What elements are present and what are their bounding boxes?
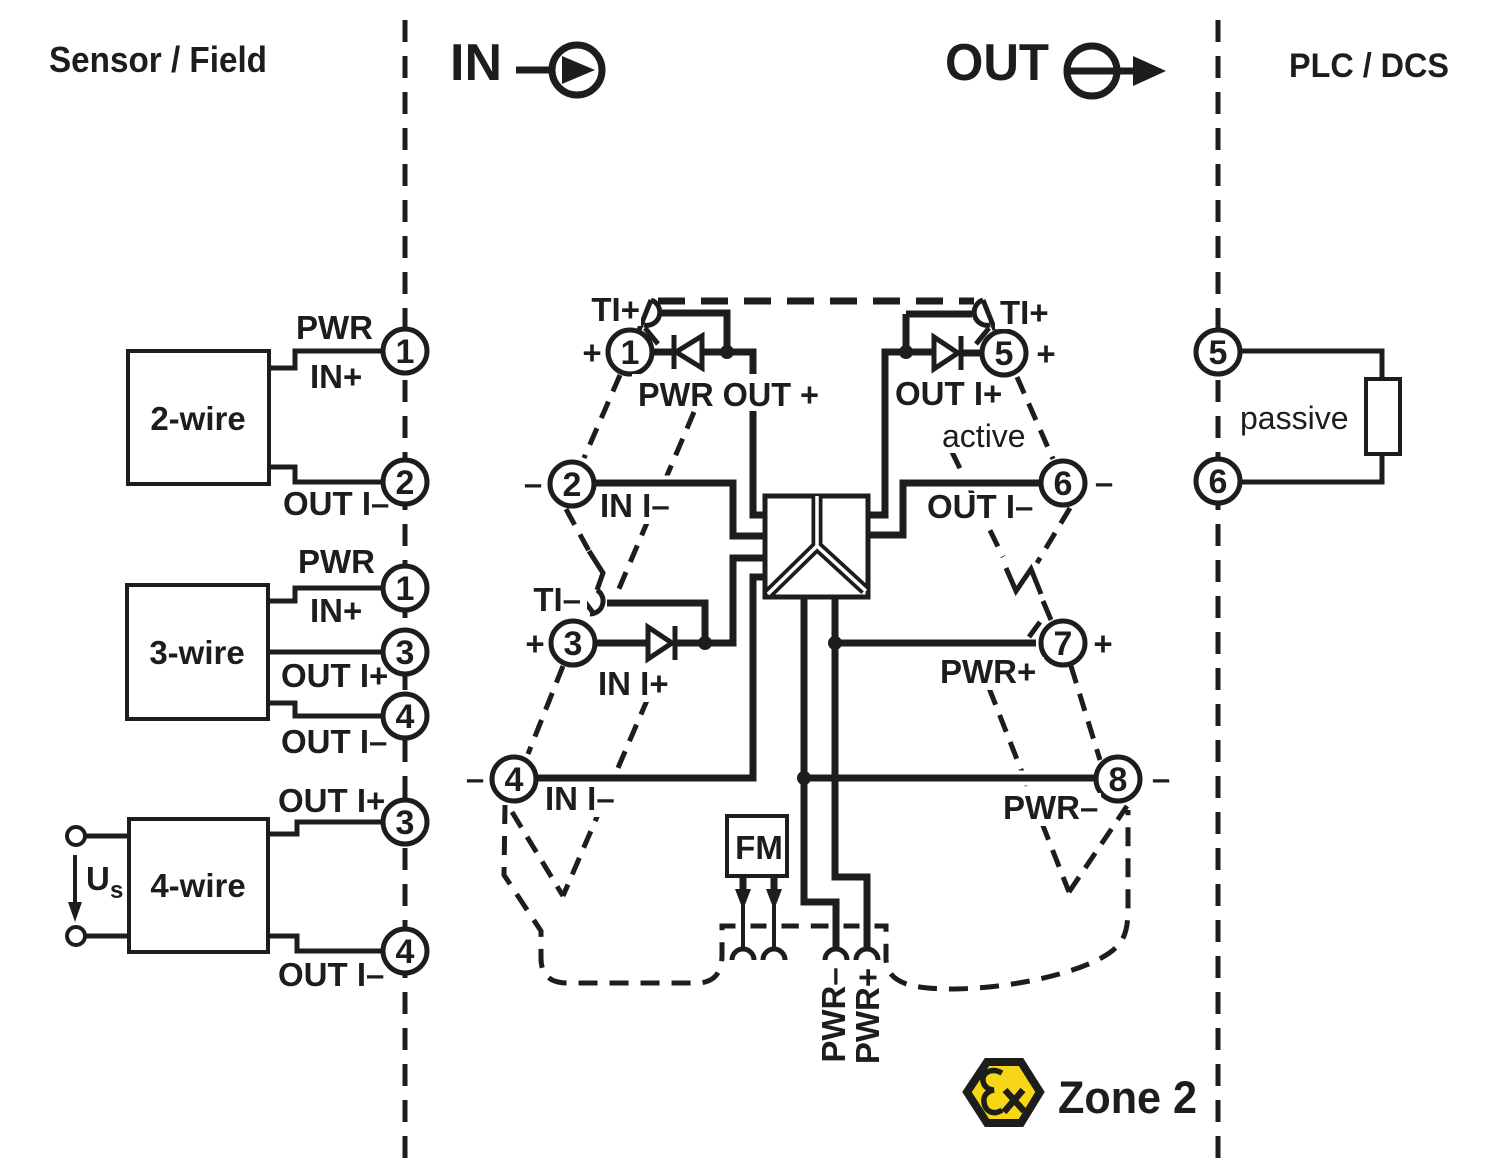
wire PWR- isolator block to bottom plug [804,597,836,947]
svg-text:PWR OUT +: PWR OUT + [638,376,819,413]
dashed link D2: PWR OUT+ label to terminal 3 test socket [618,412,694,591]
terminal 3 (left column, 3-wire) [383,630,427,674]
svg-text:5: 5 [995,335,1014,373]
dashed link D4: terminal 3 to terminal 4 [528,666,563,754]
terminal 5 (device output) [982,331,1026,375]
label IN I- at terminal 2 [595,487,680,524]
svg-text:PLC / DCS: PLC / DCS [1289,47,1449,85]
test socket at terminal 7 [1029,601,1051,637]
wire supply top to 4-wire box [85,834,129,839]
svg-text:OUT I–: OUT I– [283,485,389,522]
terminal 3 (device input) [551,621,595,665]
junction dot at terminal 3 diode [698,636,712,650]
zone boundary dashed line left (Sensor/Field | IN) [403,20,408,1165]
svg-text:2-wire: 2-wire [150,400,245,437]
wire white casings [537,313,1094,947]
wire 2-wire PWR to terminal 1 [269,351,383,368]
svg-text:OUT I+: OUT I+ [278,782,385,819]
label TI+ at terminal 5 [995,294,1055,331]
svg-text:OUT I+: OUT I+ [895,375,1002,412]
svg-text:Sensor / Field: Sensor / Field [49,39,267,80]
terminal 1 (left column, 3-wire) [383,566,427,610]
svg-text:4: 4 [396,933,415,971]
label OUT I- at terminal 6 [921,488,1039,526]
PLC terminal 5 [1196,330,1240,374]
svg-text:s: s [110,877,123,904]
svg-text:–: – [524,465,542,502]
FM box [727,816,787,876]
wire 4-wire OUT I+ to terminal 3 [268,822,383,834]
wire TI+ line to junction (output side) [906,314,972,352]
svg-text:–: – [1152,760,1170,797]
FM wire 2 with arrow [766,876,782,947]
supply terminal top (open circle) [67,827,85,845]
diode D3 at terminal 5 (cathode toward terminal) [906,336,982,370]
FM wire 1 with arrow [735,876,751,947]
label active [936,418,1032,454]
isolator block U1 [765,496,868,597]
svg-text:passive: passive [1240,400,1349,436]
dashed link D5: IN I+ label to V point below terminal 4 [563,698,648,896]
label PWR+ at terminal 7 [934,653,1044,690]
svg-text:TI–: TI– [533,581,581,618]
terminal 3 (left column, 4-wire) [383,800,427,844]
dashed link D9: terminal 7 to terminal 8 [1071,666,1100,760]
svg-text:PWR: PWR [298,543,375,580]
svg-text:Zone 2: Zone 2 [1058,1072,1197,1123]
svg-text:PWR–: PWR– [1003,789,1098,826]
svg-text:OUT I–: OUT I– [927,488,1033,525]
svg-text:IN I+: IN I+ [598,665,669,702]
terminal 4 (left column, 4-wire) [383,929,427,973]
svg-text:2: 2 [396,464,415,502]
wire OUT I- isolator block to terminal 6 [868,483,1040,535]
svg-text:PWR: PWR [296,309,373,346]
svg-text:+: + [582,334,601,371]
wire 3-wire OUT I- to terminal 4 [268,703,383,716]
svg-text:+: + [525,625,544,662]
svg-text:PWR+: PWR+ [849,968,886,1064]
diode D2 at terminal 3 (cathode toward block) [596,626,675,660]
sensor box 4-wire [129,819,268,952]
label IN I+ at terminal 3 [592,665,677,702]
svg-text:2: 2 [563,466,582,504]
Us supply arrow [68,855,82,922]
label PWR- at terminal 8 [997,789,1101,826]
zone boundary dashed line right (OUT | PLC/DCS) [1216,20,1221,1165]
supply terminal bottom (open circle) [67,927,85,945]
Ex hazardous area logo [967,1062,1040,1123]
label IN I- at terminal 4 [539,780,621,817]
dashed link D6: terminal 5 to terminal 6 [1017,377,1053,459]
wire IN I- terminal 4 to isolator block [537,577,765,778]
svg-text:6: 6 [1209,463,1228,501]
svg-text:3: 3 [396,634,415,672]
junction dot at terminal 5 diode [899,345,913,359]
wire 3-wire PWR to terminal 1 [268,588,383,601]
wire PWR+ junction to terminal 7 [835,640,1036,647]
terminal 4 (device input) [492,757,536,801]
dashed link D7: OUT I+ label to zigzag above terminal 7 [952,452,1003,557]
svg-text:+: + [1093,625,1112,662]
wire 4-wire OUT I- to terminal 4 [268,936,383,951]
svg-text:1: 1 [621,334,640,372]
wire IN I- terminal 2 to isolator block [595,483,765,536]
OUT direction symbol (circle with arrow out) [1067,46,1166,96]
svg-text:8: 8 [1109,761,1128,799]
svg-text:3-wire: 3-wire [149,634,244,671]
svg-text:OUT I–: OUT I– [281,723,387,760]
bottom plug socket FM2 [763,949,785,960]
svg-text:IN+: IN+ [310,592,362,629]
dashed Zone-2 enclosure from terminal 4 around bottom connectors to terminal 8 [504,805,1128,989]
test socket at terminal 1 [639,300,660,344]
svg-text:FM: FM [735,829,783,866]
diode D1 at terminal 1 (cathode toward terminal) [652,335,702,369]
terminal 2 (left column, 2-wire) [383,460,427,504]
wire PWR OUT+ from junction to isolator block [702,352,765,515]
svg-text:TI+: TI+ [1000,294,1049,331]
zigzag break at terminal 3 [589,551,603,590]
svg-text:TI+: TI+ [591,291,640,328]
test socket at terminal 5 [974,300,995,344]
test socket at terminal 3 [582,590,603,614]
svg-text:PWR+: PWR+ [940,653,1036,690]
wire OUT I+ isolator block to junction [868,352,906,515]
svg-text:1: 1 [396,570,415,608]
svg-text:IN: IN [450,34,502,92]
terminal 8 (device power) [1096,757,1140,801]
svg-text:IN+: IN+ [310,358,362,395]
IN direction symbol (line into circle with arrow) [516,45,602,95]
svg-text:4: 4 [505,761,524,799]
wire load resistor to PLC terminal 6 [1242,454,1382,482]
load resistor (passive) [1366,379,1400,454]
terminal 7 (device power) [1041,621,1085,665]
dashed link D10: PWR+ label to V point below [989,688,1069,892]
PLC terminal 6 [1196,459,1240,503]
svg-text:IN I–: IN I– [600,487,670,524]
bottom plug socket FM1 [732,949,754,960]
wire PWR+ isolator block to bottom plug [835,597,867,947]
svg-text:U: U [86,860,110,897]
dashed link D8: terminal 6 to zigzag above terminal 7 [1037,508,1070,563]
svg-text:IN I–: IN I– [545,780,615,817]
svg-text:3: 3 [564,625,583,663]
dashed link D3: terminal 2 to terminal 3 zigzag [566,509,589,551]
svg-text:1: 1 [396,333,415,371]
terminal 6 (device output) [1041,461,1085,505]
svg-text:+: + [1036,335,1055,372]
wire IN I+ junction to isolator block [675,558,765,643]
svg-text:5: 5 [1209,334,1228,372]
zigzag break above terminal 7 [1006,568,1041,594]
wire TI- line from test socket to junction [607,603,705,643]
svg-text:OUT I–: OUT I– [278,956,384,993]
svg-text:6: 6 [1054,465,1073,503]
svg-text:7: 7 [1054,625,1073,663]
terminal 2 (device input) [550,462,594,506]
junction dot PWR+ to terminal 7 [828,636,842,650]
label TI+ at terminal 1 [585,291,641,328]
svg-text:–: – [1095,464,1113,501]
sensor box 2-wire [128,351,269,484]
dashed link: top TI+ bus between terminal 1 and terminal 5 [658,298,974,305]
dashed link D1: terminal 1 to terminal 2 [584,375,620,458]
svg-text:OUT I+: OUT I+ [281,657,388,694]
wire supply bottom to 4-wire box [85,934,129,939]
label TI- at terminal 3 [525,581,587,618]
label PWR OUT + [632,374,824,413]
terminal 1 (left column, 2-wire) [383,329,427,373]
svg-text:4-wire: 4-wire [150,867,245,904]
svg-text:3: 3 [396,804,415,842]
svg-text:PWR–: PWR– [815,967,852,1062]
dashed link D11: V point up to terminal 8 [1069,806,1127,892]
terminal 4 (left column, 3-wire) [383,694,427,738]
label OUT I+ at terminal 5 [889,375,1005,413]
wire PLC terminal 5 to load resistor [1242,351,1382,379]
sensor box 3-wire [127,585,268,719]
wire PWR- junction to terminal 8 [804,775,1094,782]
svg-text:active: active [942,418,1026,454]
wire 3-wire OUT I+ to terminal 3 [268,650,383,655]
wire TI+ line into junction above diode (input side) [659,313,727,352]
wire 2-wire OUT I- to terminal 2 [269,467,383,482]
svg-text:–: – [466,760,484,797]
bottom plug socket PWR- [825,949,847,960]
terminal 1 (device input) [608,330,652,374]
junction dot at terminal 1 diode [720,345,734,359]
svg-text:4: 4 [396,698,415,736]
svg-text:OUT: OUT [945,34,1049,92]
junction dot PWR- to terminal 8 [797,771,811,785]
bottom plug socket PWR+ [856,949,878,960]
dashed link D5b: terminal 4 to V point [512,812,563,896]
